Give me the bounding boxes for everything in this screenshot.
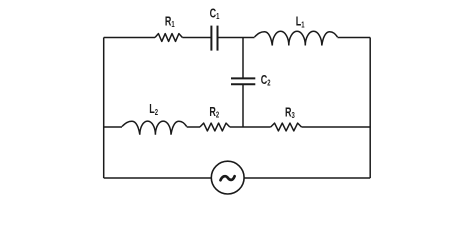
wire: R3 to right vertical bbox=[302, 126, 371, 128]
wire: C2 down to node B bbox=[242, 84, 244, 127]
capacitor C2 top plate bbox=[231, 77, 255, 79]
resistor R1 bbox=[155, 34, 182, 42]
wire: right vertical branch bbox=[369, 38, 371, 179]
resistor R3 bbox=[271, 123, 302, 131]
capacitor C1 left plate bbox=[210, 26, 212, 51]
wire: source to bottom-right corner bbox=[244, 177, 370, 179]
wire: middle row, left segment to L2 bbox=[104, 126, 122, 128]
AC source V1 circle bbox=[211, 161, 244, 194]
svg-text:R2: R2 bbox=[209, 105, 219, 119]
inductor L2 bbox=[122, 121, 187, 135]
resistor R2 bbox=[200, 123, 230, 131]
wire: top side, left segment to R1 bbox=[104, 37, 155, 39]
wire: bottom side, left segment to source bbox=[104, 177, 212, 179]
AC source V1 sine symbol bbox=[221, 176, 235, 180]
wire: node B to R3 bbox=[243, 126, 271, 128]
svg-text:R3: R3 bbox=[285, 106, 295, 120]
wire: L2 to R2 bbox=[187, 126, 200, 128]
svg-text:C2: C2 bbox=[261, 74, 271, 88]
capacitor C2 bottom plate bbox=[231, 83, 255, 85]
svg-text:R1: R1 bbox=[165, 15, 175, 29]
wire: node A to L1 bbox=[243, 37, 255, 39]
wire: L1 to top-right corner bbox=[338, 37, 371, 39]
wire: left vertical branch bbox=[103, 38, 105, 179]
svg-text:C1: C1 bbox=[210, 7, 220, 21]
svg-text:L2: L2 bbox=[149, 103, 158, 117]
svg-text:L1: L1 bbox=[296, 15, 305, 29]
wire: C1 to node A bbox=[218, 37, 244, 39]
wire: R1 to C1 bbox=[182, 37, 211, 39]
wire: node A down to C2 bbox=[242, 38, 244, 79]
inductor L1 bbox=[255, 31, 338, 45]
capacitor C1 right plate bbox=[217, 26, 219, 51]
wire: R2 to node B bbox=[230, 126, 243, 128]
